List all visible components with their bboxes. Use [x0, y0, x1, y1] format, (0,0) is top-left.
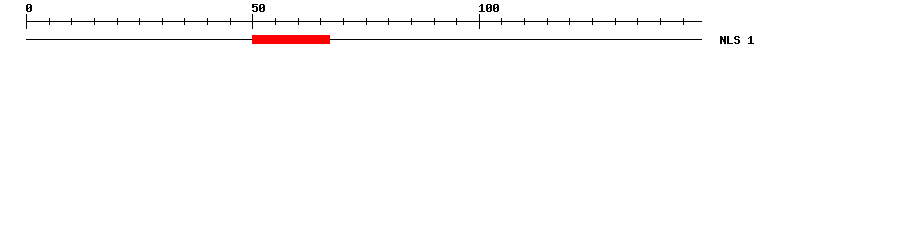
minor tick: [343, 18, 344, 25]
major tick at 50: [252, 14, 253, 29]
ruler label 100: [479, 4, 499, 12]
minor tick: [298, 18, 299, 25]
minor tick: [117, 18, 118, 25]
minor tick: [683, 18, 684, 25]
minor tick: [615, 18, 616, 25]
minor tick: [592, 18, 593, 25]
minor tick: [207, 18, 208, 25]
minor tick: [162, 18, 163, 25]
minor tick: [411, 18, 412, 25]
ruler line: [26, 21, 702, 22]
minor tick: [320, 18, 321, 25]
ruler label 50: [252, 4, 265, 12]
minor tick: [184, 18, 185, 25]
minor tick: [547, 18, 548, 25]
minor tick: [456, 18, 457, 25]
minor tick: [660, 18, 661, 25]
label NLS 1: [720, 36, 754, 44]
minor tick: [501, 18, 502, 25]
minor tick: [524, 18, 525, 25]
minor tick: [637, 18, 638, 25]
minor tick: [434, 18, 435, 25]
minor tick: [275, 18, 276, 25]
domain NLS 1 red box: [252, 35, 330, 44]
minor tick: [139, 18, 140, 25]
sequence line: [26, 39, 702, 40]
major tick at 100: [479, 14, 480, 29]
minor tick: [366, 18, 367, 25]
minor tick: [388, 18, 389, 25]
minor tick: [569, 18, 570, 25]
minor tick: [49, 18, 50, 25]
ruler label 0: [26, 4, 32, 12]
minor tick: [71, 18, 72, 25]
minor tick: [94, 18, 95, 25]
minor tick: [230, 18, 231, 25]
major tick at 0: [26, 14, 27, 29]
